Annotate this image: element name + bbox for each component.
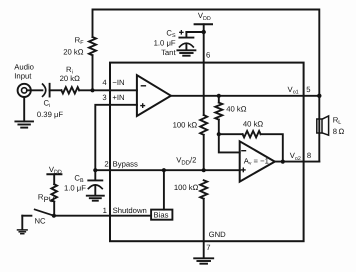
svg-text:8: 8 xyxy=(307,151,311,160)
svg-text:NC: NC xyxy=(35,217,47,226)
capacitor CB 1.0uF xyxy=(94,170,96,180)
svg-text:100 kΩ: 100 kΩ xyxy=(173,120,198,129)
svg-text:20 kΩ: 20 kΩ xyxy=(63,47,84,56)
switch S1 shutdown xyxy=(35,209,54,215)
svg-text:40 kΩ: 40 kΩ xyxy=(243,120,264,129)
svg-text:8 Ω: 8 Ω xyxy=(333,127,345,136)
svg-text:7: 7 xyxy=(206,243,210,252)
svg-text:4: 4 xyxy=(102,78,107,87)
op-amp A2 Av=-1 xyxy=(240,141,275,181)
svg-text:Shutdown: Shutdown xyxy=(113,206,147,215)
capacitor CS 1.0uF Tant xyxy=(185,32,187,37)
resistor RPU xyxy=(51,184,57,201)
svg-text:40 kΩ: 40 kΩ xyxy=(226,104,247,113)
speaker RL xyxy=(317,119,322,133)
IC box U1 xyxy=(110,63,304,242)
wire 40k feedback to Vo2 xyxy=(261,134,283,161)
wire top feedback loop RF-to-Vo1 xyxy=(93,10,320,96)
ground (CB) xyxy=(87,195,104,197)
svg-text:GND: GND xyxy=(209,230,227,239)
svg-text:1.0 μF: 1.0 μF xyxy=(64,183,86,192)
svg-text:−IN: −IN xyxy=(112,78,124,87)
svg-text:+IN: +IN xyxy=(112,93,124,102)
node bypass junction xyxy=(93,168,97,172)
wire VDD to CS xyxy=(186,31,203,33)
ground (switch) xyxy=(18,229,28,231)
svg-text:PU: PU xyxy=(44,195,55,204)
node shutdown/RPU junction xyxy=(52,214,56,218)
wire RF bottom lead xyxy=(92,55,94,90)
wire divider to A2 inverting input xyxy=(219,134,240,152)
wire rail to GND pin 7 xyxy=(203,199,205,258)
svg-text:Bias: Bias xyxy=(154,210,169,219)
svg-text:5: 5 xyxy=(306,85,310,94)
wire bypass VDD/2 rail xyxy=(95,169,240,171)
node bias/VDD2 junction xyxy=(162,168,166,172)
ground (pin 7) xyxy=(194,257,213,259)
svg-text:Audio: Audio xyxy=(14,63,34,72)
node VDD/CS junction xyxy=(202,30,206,34)
resistor 100k (upper) xyxy=(200,115,207,135)
wire op-amp A2 output Vo2 xyxy=(275,161,320,163)
wire bias link xyxy=(163,170,165,209)
polarity + (CS) xyxy=(180,31,183,33)
resistor RF 20k body xyxy=(89,37,96,55)
node VDD2/rail junction xyxy=(202,168,206,172)
svg-text:20 kΩ: 20 kΩ xyxy=(60,74,81,83)
wire jack to Ci xyxy=(27,89,43,91)
capacitor Ci 0.39uF xyxy=(43,84,46,96)
node Vo2/feedback junction xyxy=(281,160,285,164)
block Bias xyxy=(151,210,172,220)
op-amp A1 xyxy=(137,75,171,116)
node -IN junction (RF/Ri) xyxy=(90,88,94,92)
svg-text:Bypass: Bypass xyxy=(113,159,138,168)
wire Ci to Ri xyxy=(50,89,62,91)
svg-text:Av = −1: Av = −1 xyxy=(244,156,269,166)
svg-text:Tant: Tant xyxy=(161,48,176,57)
wire +IN pin 3 xyxy=(95,105,137,170)
svg-text:3: 3 xyxy=(102,93,106,102)
resistor Ri 20k body xyxy=(61,87,79,93)
svg-text:0.39 μF: 0.39 μF xyxy=(37,110,64,119)
wire VDD rail pin 6 xyxy=(203,32,205,115)
node Vo1/speaker junction xyxy=(317,94,321,98)
svg-text:100 kΩ: 100 kΩ xyxy=(174,183,199,192)
svg-text:6: 6 xyxy=(206,50,210,59)
node 40k/40k divider xyxy=(217,132,221,136)
wire shutdown pin 1 xyxy=(54,215,151,217)
resistor 100k (lower) xyxy=(200,180,207,199)
ground (audio input) xyxy=(23,97,25,121)
svg-text:1: 1 xyxy=(103,206,107,215)
node op1-out/40k junction xyxy=(217,94,221,98)
resistor 40k (upper) xyxy=(218,96,220,103)
wire 100k to VDD/2 node xyxy=(203,135,205,170)
wire Ri to -IN pin 4 xyxy=(79,89,137,91)
svg-text:2: 2 xyxy=(104,159,108,168)
ground (CS) xyxy=(177,49,195,51)
svg-text:1.0 μF: 1.0 μF xyxy=(154,38,176,47)
wire Vo1 to speaker xyxy=(318,96,320,162)
svg-text:Input: Input xyxy=(14,71,32,80)
wire op-amp A1 output Vo1 xyxy=(171,95,319,97)
connector J1 audio input jack xyxy=(18,84,31,97)
resistor 40k (feedback) xyxy=(219,133,243,135)
